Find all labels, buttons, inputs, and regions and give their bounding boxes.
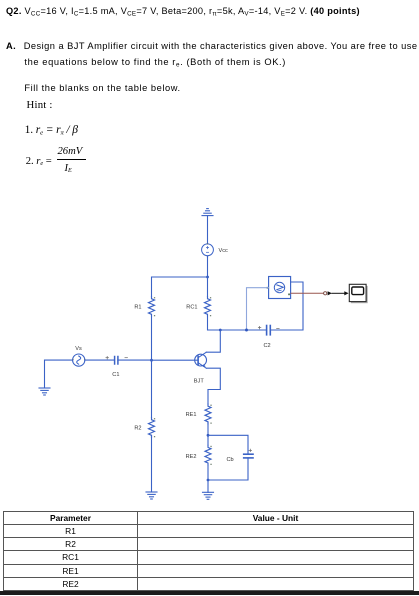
- svg-text:C2: C2: [264, 343, 271, 349]
- node emitter junction 2: [207, 479, 210, 482]
- ground under Vs: [39, 388, 50, 395]
- resistor RE2: [205, 445, 211, 465]
- voltage measurement block U1: [269, 277, 291, 299]
- svg-text:RE1: RE1: [186, 412, 197, 418]
- wire Vs left to ground: [45, 360, 73, 388]
- wire measure block left tap (light): [247, 288, 269, 330]
- svg-text:Vcc: Vcc: [219, 248, 229, 254]
- pin ticks resistors: [154, 297, 212, 465]
- wire junction1 to Cb top: [208, 435, 248, 454]
- fill blanks line: [24, 83, 180, 93]
- arrow at scope: [344, 291, 348, 295]
- polarity marks C1: [106, 356, 128, 359]
- svg-text:R2: R2: [134, 426, 141, 432]
- wire to scope: [332, 292, 344, 294]
- wire RC1 down to collector rail: [208, 318, 267, 331]
- equation 2: [26, 156, 52, 167]
- polarity marks C2: [258, 326, 279, 329]
- node base junction: [150, 359, 153, 362]
- capacitor C1: [115, 357, 118, 365]
- Vcc source V1: [202, 244, 214, 256]
- ground under RE2: [203, 492, 214, 499]
- svg-text:R1: R1: [134, 305, 141, 311]
- wire C1 to base rail: [118, 359, 152, 361]
- node junction Vcc rail: [206, 276, 209, 279]
- transistor BJT: [195, 352, 207, 368]
- capacitor Cb: [244, 454, 253, 458]
- wire R1 to base node: [151, 318, 153, 361]
- wire RE1 to RE2: [207, 423, 209, 446]
- svg-text:Cb: Cb: [227, 457, 234, 463]
- source Vs: [73, 354, 85, 366]
- wire Vcc rail horizontal: [152, 277, 208, 297]
- question text line 1: [6, 6, 360, 17]
- signal line measurement to scope (red): [291, 292, 327, 295]
- wire base node to R2: [151, 360, 153, 417]
- node measure tap junction: [245, 329, 248, 332]
- port marks measurement block: [267, 287, 290, 295]
- wire base: [152, 359, 199, 361]
- resistor R1: [149, 297, 155, 317]
- node collector junction: [219, 329, 222, 332]
- polarity mark Cb: [249, 449, 252, 452]
- ground under R2: [146, 492, 157, 499]
- wire C2 to measure block right: [270, 282, 303, 330]
- wire Vs right to C1: [85, 359, 114, 361]
- wire R2 to ground: [151, 436, 153, 493]
- wire ground-top to Vcc source: [207, 216, 209, 244]
- wire Vcc junction to RC1: [207, 277, 209, 297]
- equation 1: [25, 124, 78, 136]
- svg-text:RC1: RC1: [186, 305, 197, 311]
- svg-text:Vs: Vs: [75, 346, 82, 352]
- parameter table: [3, 511, 414, 591]
- arrow mid: [328, 291, 332, 295]
- wire Cb bottom to junction2: [208, 458, 248, 480]
- hint heading: [27, 99, 53, 111]
- wire Vcc to junction: [207, 256, 209, 277]
- resistor RC1: [205, 297, 211, 317]
- svg-text:RE2: RE2: [186, 454, 197, 460]
- item A line 2: [24, 57, 286, 68]
- node emitter junction 1: [207, 434, 210, 437]
- svg-text:C1: C1: [112, 372, 119, 378]
- wire collector: [206, 330, 220, 352]
- resistor RE1: [205, 404, 211, 424]
- svg-text:BJT: BJT: [194, 378, 205, 384]
- capacitor C2: [267, 326, 271, 335]
- wire emitter: [206, 368, 220, 404]
- resistor R2: [149, 418, 155, 438]
- ground top (inverted, above Vcc): [202, 209, 213, 216]
- item A line 1: [6, 41, 417, 51]
- scope block: [349, 284, 367, 303]
- wire RE2 to junction2 to ground: [207, 466, 209, 492]
- bottom dark bar: [0, 591, 419, 595]
